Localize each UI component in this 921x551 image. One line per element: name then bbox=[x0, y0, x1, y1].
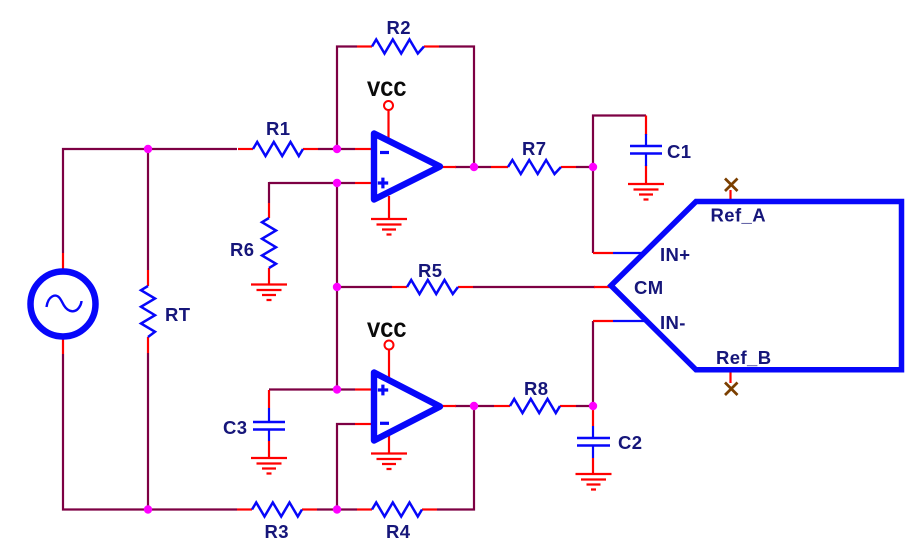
resistor R6 vertical bbox=[262, 218, 276, 268]
op-amp U1 triangle bbox=[374, 134, 440, 200]
pin R4 left bbox=[357, 508, 372, 510]
wire RT upper bbox=[147, 148, 149, 270]
svg-text:R5: R5 bbox=[418, 260, 442, 281]
pin IN+ stub bbox=[593, 252, 613, 254]
junction node U2 noninverting bbox=[333, 385, 341, 393]
svg-text:IN+: IN+ bbox=[660, 244, 691, 265]
junction node CM bus bbox=[333, 283, 341, 291]
wire common-mode bus vertical bbox=[336, 183, 338, 389]
wire U2 inverting input down to R3 R4 node bbox=[337, 424, 355, 511]
pin R2 right bbox=[424, 45, 439, 47]
pin Ref_B stub bbox=[729, 367, 731, 383]
wire C3 row to U2 noninverting input bbox=[269, 388, 355, 390]
svg-text:Ref_A: Ref_A bbox=[711, 205, 766, 226]
wire node down to IN+ bbox=[592, 167, 594, 253]
resistor R5 bbox=[407, 280, 458, 294]
pin U2 noninverting bbox=[355, 388, 371, 390]
pin C3 bottom bbox=[268, 441, 270, 458]
resistor R2 bbox=[372, 40, 424, 54]
wire U1 output to R7 bbox=[455, 166, 491, 168]
pin R6 top bbox=[268, 203, 270, 218]
pin U2 output bbox=[441, 405, 456, 407]
no-connect X Ref_A bbox=[725, 179, 738, 192]
pin CM stub bbox=[594, 286, 611, 288]
wire U2 VCC supply bbox=[388, 350, 390, 380]
resistor R1 bbox=[253, 142, 303, 156]
wire R7 to node bbox=[576, 166, 594, 168]
op-amp U2 triangle bbox=[374, 373, 440, 441]
pin R3 right bbox=[302, 508, 317, 510]
pin U1 noninverting bbox=[355, 182, 371, 184]
power VCC circle U1 bbox=[384, 101, 393, 110]
source V1 sine bbox=[47, 296, 82, 312]
pin R4 right bbox=[422, 508, 437, 510]
wire R4 to U2 output feedback bbox=[437, 406, 474, 510]
resistor RT vertical bbox=[141, 286, 155, 337]
svg-text:IN-: IN- bbox=[660, 312, 686, 333]
pin C2 bottom bbox=[592, 458, 594, 474]
resistor R7 bbox=[508, 160, 561, 174]
wire bus to R5 bbox=[337, 286, 392, 288]
svg-text:R8: R8 bbox=[524, 378, 548, 399]
wire R3 R4 junction row bbox=[317, 508, 357, 510]
ground C1 bbox=[628, 184, 664, 200]
pin C2 top bbox=[592, 406, 594, 426]
source V1 circle bbox=[31, 272, 96, 337]
svg-text:R3: R3 bbox=[265, 521, 289, 542]
pin IN+ line bbox=[613, 252, 646, 254]
pin R8 left bbox=[494, 405, 510, 407]
svg-text:C1: C1 bbox=[667, 141, 691, 162]
ground U1 bbox=[371, 219, 407, 235]
junction node U2 output bbox=[470, 402, 478, 410]
junction node R8 C2 IN- bbox=[589, 402, 597, 410]
pin RT top bbox=[147, 270, 149, 286]
svg-text:CM: CM bbox=[634, 277, 664, 298]
power VCC circle U2 bbox=[385, 341, 394, 350]
pin R8 right bbox=[560, 405, 576, 407]
capacitor C3 leads bbox=[268, 408, 270, 441]
pin IN- stub bbox=[593, 320, 613, 322]
wire node up to C1 bbox=[593, 116, 646, 168]
capacitor C1 leads bbox=[645, 134, 647, 166]
op-amp U2 minus mark bbox=[380, 422, 389, 425]
no-connect X Ref_B bbox=[725, 383, 738, 396]
wire R2 left feedback bbox=[337, 47, 357, 150]
wire source top-left corner bbox=[63, 149, 237, 253]
op-amp U2 plus mark bbox=[378, 385, 388, 396]
junction node R7 C1 IN+ bbox=[589, 163, 597, 171]
wire U2 output to R8 bbox=[455, 405, 494, 407]
wire source bottom-left corner bbox=[63, 354, 237, 510]
pin U1 inverting bbox=[355, 148, 371, 150]
pin U2 inverting bbox=[355, 423, 371, 425]
pin R1 right bbox=[303, 148, 318, 150]
pin RT bottom bbox=[147, 337, 149, 353]
pin R2 left bbox=[357, 45, 372, 47]
wire node up to IN- bbox=[592, 321, 594, 406]
svg-text:R4: R4 bbox=[386, 521, 411, 542]
pin R7 right bbox=[561, 166, 576, 168]
pin R5 right bbox=[458, 286, 473, 288]
svg-text:Ref_B: Ref_B bbox=[716, 347, 771, 368]
pin source V1 bottom bbox=[62, 339, 64, 354]
wire U2 ground stem bbox=[388, 434, 390, 454]
pin R1 left bbox=[238, 148, 253, 150]
svg-text:R6: R6 bbox=[230, 239, 254, 260]
ground R6 bbox=[251, 285, 287, 301]
wire R5 to CM pin bbox=[473, 286, 595, 288]
pin U1 output bbox=[441, 166, 456, 168]
pin C3 top bbox=[268, 390, 270, 408]
resistor R4 bbox=[372, 503, 422, 517]
capacitor C2 leads bbox=[592, 426, 594, 458]
pin R6 bottom bbox=[268, 268, 270, 284]
svg-text:C3: C3 bbox=[223, 417, 247, 438]
capacitor C1 plates bbox=[630, 146, 662, 154]
wire R1 to U1 inverting input bbox=[318, 148, 355, 150]
svg-text:VCC: VCC bbox=[367, 78, 407, 103]
wire R6 top lead bbox=[268, 182, 270, 203]
wire U1 VCC supply bbox=[387, 110, 389, 139]
ground C2 bbox=[576, 474, 612, 490]
junction node R1 RT source bbox=[144, 145, 152, 153]
pin R7 left bbox=[491, 166, 508, 168]
svg-text:R2: R2 bbox=[387, 17, 411, 38]
pin C1 top bbox=[645, 116, 647, 136]
resistor R3 bbox=[252, 503, 302, 517]
junction node U1 inverting bbox=[333, 145, 341, 153]
svg-text:R7: R7 bbox=[522, 138, 546, 159]
junction node U1 noninverting bbox=[333, 179, 341, 187]
pin C1 bottom bbox=[645, 165, 647, 184]
wire R8 to node bbox=[576, 405, 594, 407]
junction node R3 R4 bbox=[333, 505, 341, 513]
op-amp U1 plus mark bbox=[378, 178, 388, 189]
svg-text:RT: RT bbox=[165, 304, 191, 325]
svg-text:C2: C2 bbox=[618, 432, 642, 453]
capacitor C2 plates bbox=[577, 438, 610, 446]
junction node U1 output bbox=[470, 163, 478, 171]
ground U2 bbox=[371, 454, 407, 470]
capacitor C3 plates bbox=[253, 422, 285, 430]
junction node RT bottom bbox=[144, 505, 152, 513]
svg-text:R1: R1 bbox=[266, 118, 290, 139]
resistor R8 bbox=[510, 399, 560, 413]
ground C3 bbox=[251, 458, 287, 474]
pin Ref_A stub bbox=[729, 190, 731, 203]
wire R2 right feedback bbox=[439, 47, 474, 168]
op-amp U1 minus mark bbox=[380, 151, 389, 154]
pin IN- line bbox=[613, 320, 649, 322]
svg-text:VCC: VCC bbox=[367, 319, 407, 344]
pin source V1 top bbox=[62, 253, 64, 269]
wire R6 row to U1 noninverting input bbox=[269, 182, 355, 184]
pin R5 left bbox=[392, 286, 407, 288]
ADC U3 body bbox=[611, 202, 902, 370]
wire RT lower bbox=[147, 353, 149, 511]
pin R3 left bbox=[237, 508, 252, 510]
wire U1 ground stem bbox=[388, 196, 390, 219]
